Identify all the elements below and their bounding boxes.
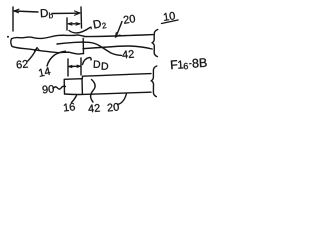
bottom strip bottom edge (65, 92, 152, 94)
dimension line Db right segment with right arrowhead (52, 12, 79, 14)
break brace bottom (151, 66, 157, 97)
squiggle leader for label 90 (53, 86, 66, 89)
arrow leader for label 20 top (117, 22, 123, 36)
coating blob 62 outline bottom edge (11, 39, 84, 54)
ferrule rectangle 16 (64, 79, 82, 95)
label 10 (163, 12, 175, 21)
leader for label 14 (47, 51, 66, 66)
DD dimension arrows (69, 65, 81, 67)
label 20 top (123, 15, 135, 24)
break brace top (152, 30, 158, 57)
label 42 bottom (88, 104, 100, 113)
DD extension tick left (67, 59, 69, 76)
label 90 (42, 85, 54, 94)
DD extension tick right (80, 58, 82, 75)
dot at left tip (7, 36, 9, 38)
extension line right tick (80, 7, 83, 28)
leader from label 20 bottom (118, 94, 127, 105)
bottom strip top edge (82, 74, 151, 79)
arrow leader for label 62 (28, 49, 37, 61)
leader arc to DD label (83, 58, 92, 65)
fiber core middle line (57, 42, 84, 44)
label 62 (16, 60, 28, 69)
label 14 (38, 67, 50, 77)
label D2 (93, 19, 106, 30)
label DD (94, 60, 109, 69)
leader from label 16 (72, 96, 77, 103)
bare fiber 20 bottom edge (83, 46, 152, 49)
underline of label 10 (162, 20, 179, 24)
label Db (41, 9, 53, 19)
extension line small tick (66, 18, 68, 30)
coating blob 62 outline top edge (12, 35, 85, 39)
label 16 (63, 103, 75, 112)
leader arc from D2 label (69, 28, 90, 33)
bare fiber 20 top edge (84, 35, 153, 37)
dimension line D2 small with outward arrowheads (69, 23, 80, 25)
extension line left tick (12, 7, 14, 31)
taper curve leader to label 42 (84, 42, 122, 55)
label 42 top (122, 50, 134, 58)
figure title FIG. 8B (171, 58, 207, 70)
label 20 bottom (107, 103, 119, 112)
end face line 14 (82, 39, 84, 54)
dimension line Db left segment with left arrowhead (14, 11, 38, 12)
arc leader from label 42 bottom (91, 80, 95, 103)
comma before D2 (90, 27, 92, 30)
